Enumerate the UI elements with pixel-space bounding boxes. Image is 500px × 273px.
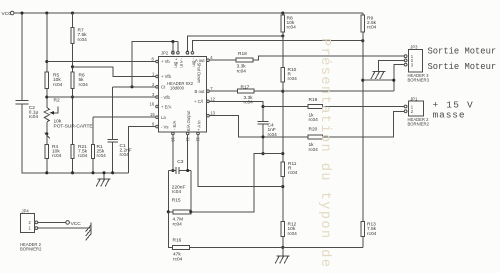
svg-text:rc04: rc04 [78, 153, 88, 159]
wire R9col tap to JP3 drop [363, 79, 394, 81]
value label R7 [78, 28, 88, 43]
IC U1 left pin numbers [150, 57, 156, 127]
wire C3 left node down to R16 [168, 171, 172, 248]
junction R11top-NetY [281, 152, 284, 155]
svg-text:rc04: rc04 [367, 25, 377, 31]
wire pin13 staircase to R20 [209, 116, 307, 137]
capacitor C3 [176, 167, 179, 174]
wire L1 top pin to R8 node [187, 36, 282, 52]
svg-text:rc04: rc04 [173, 221, 183, 227]
junction C4-R19 [261, 105, 264, 108]
value label R2 pot [54, 119, 93, 130]
junction pot-R4 [45, 132, 48, 135]
svg-text:18: 18 [171, 50, 176, 55]
svg-text:BORNIER2: BORNIER2 [408, 122, 430, 127]
junction C4-NetY [261, 152, 264, 155]
svg-text:JP4: JP4 [22, 208, 30, 213]
svg-text:11: 11 [196, 137, 201, 142]
svg-text:rc04: rc04 [268, 132, 278, 138]
svg-text:13: 13 [210, 111, 215, 116]
junction C2-rail [20, 11, 23, 14]
wire R15 left stub [168, 211, 173, 213]
junction R7R6-pin1 [71, 65, 74, 68]
junction R8-rail [281, 11, 284, 14]
wire JP3 pin3 drop [394, 65, 405, 92]
svg-text:- Vfb: - Vfb [161, 95, 171, 100]
value label C1 [120, 143, 132, 158]
value label C2 [29, 105, 39, 120]
svg-text:11: 11 [185, 137, 190, 142]
potentiometer R2 wiper arrow [50, 107, 58, 115]
svg-text:R15: R15 [172, 197, 181, 203]
wire R17 right long run [254, 90, 394, 92]
svg-text:12: 12 [210, 96, 215, 101]
wire C4 bottom to NetY [262, 124, 264, 154]
wire bottom pin3 drop NetX [198, 135, 283, 187]
wire pot bottom to R4 [46, 122, 48, 145]
connector JP1 body [409, 101, 424, 116]
wire Ct to top pins riser [132, 42, 178, 87]
svg-text:rc04: rc04 [309, 117, 319, 123]
resistor R7 [71, 27, 74, 43]
resistor R5 [45, 72, 48, 89]
junction R5-rail [45, 11, 48, 14]
resistor R16 [172, 245, 189, 249]
svg-text:- A In: - A In [179, 58, 184, 68]
potentiometer R2 body [44, 108, 49, 122]
svg-text:BORNIER2: BORNIER2 [20, 247, 42, 252]
wire JP4 pin1 to earth [38, 227, 91, 229]
wire +Vb pin8 [47, 61, 156, 63]
junction R1-rail [91, 171, 94, 174]
svg-text:rc04: rc04 [52, 153, 62, 159]
svg-text:rc04: rc04 [172, 189, 182, 195]
wire bottom pin1 drop [172, 135, 174, 171]
svg-text:BORNIER3: BORNIER3 [408, 77, 430, 82]
wire C1 to bottom rail [112, 142, 114, 173]
IC U1 bottom pin numbers [171, 137, 201, 142]
wire C1 column upper [112, 87, 114, 140]
IC U1 right pin numbers [210, 55, 215, 115]
capacitor C2 [16, 101, 29, 104]
resistor R11 [281, 162, 284, 177]
svg-text:Shut Down: Shut Down [197, 63, 202, 84]
wire R1 to bottom rail [92, 158, 94, 172]
wire rail corner into R9 [362, 13, 364, 15]
svg-text:R17: R17 [241, 85, 250, 91]
ground GND2 earth under R12 [275, 247, 289, 263]
svg-text:17: 17 [185, 50, 190, 55]
wire R16 right bottom run [190, 246, 363, 248]
junction R5-Vfb [45, 95, 48, 98]
connector JP1 name [408, 117, 430, 127]
value label R20 [309, 126, 319, 152]
svg-text:POT-SUR-CARTE: POT-SUR-CARTE [54, 123, 93, 129]
wire VCC top rail [14, 12, 363, 14]
value label R5 [53, 73, 63, 88]
wire R8 rail stub [282, 13, 284, 15]
wire +Vfb pin1 staircase [73, 67, 156, 77]
svg-text:18d000: 18d000 [170, 86, 185, 91]
junction R21-rail [71, 171, 74, 174]
wire R6 to R21 [72, 89, 74, 145]
value label R19 [309, 97, 319, 123]
wire R12 to bottom node [282, 237, 284, 248]
wire +C/l to C4 [209, 101, 263, 121]
junction bpin1-C3left [171, 169, 174, 172]
resistor R1 [91, 144, 94, 158]
svg-text:+ Vfb: + Vfb [161, 74, 172, 79]
IC U1 top pin numbers [171, 50, 191, 55]
svg-text:rc04: rc04 [29, 114, 39, 120]
value label R15 [172, 197, 183, 227]
connector JP4 name [20, 242, 42, 252]
capacitor C4 [258, 122, 269, 124]
IC U1 HEADER 9X2 body [159, 56, 207, 131]
capacitor C1 [107, 139, 118, 141]
value label R1 [97, 144, 107, 159]
node VCC top-left circle [10, 11, 14, 15]
svg-text:+ Vb: + Vb [161, 59, 170, 64]
junction top pin A [171, 40, 174, 43]
svg-text:JP1: JP1 [410, 97, 418, 102]
value label R8 [287, 15, 297, 30]
wire -Vs pin9 [129, 127, 156, 173]
connector JP3 pin numbers [411, 54, 414, 67]
IC U1 rotated pin names [172, 58, 202, 131]
value label R21 [78, 144, 88, 159]
wire -Vfb pin3 [47, 96, 156, 98]
svg-text:JP2: JP2 [161, 50, 169, 55]
wire C2 column upper [21, 13, 23, 101]
connector JP1 pin circles [404, 105, 407, 113]
value label R13 [367, 222, 377, 237]
resistor R13 [361, 221, 364, 236]
connector JP3 name [408, 73, 430, 83]
wire R20 to JP1 pin2 [323, 111, 405, 137]
svg-text:VCC: VCC [2, 11, 13, 17]
connector JP3 pin circles [404, 55, 407, 66]
wire R19 to JP1 pin1 [323, 106, 405, 108]
junction GND1-rail [102, 171, 105, 174]
svg-text:rc04: rc04 [288, 76, 298, 82]
wire R5 bottom to pot [46, 89, 48, 108]
pot arrow tick [45, 133, 50, 139]
IC U1 right pin names [194, 58, 205, 104]
svg-text:La: La [161, 115, 166, 120]
svg-text:rc04: rc04 [173, 256, 183, 262]
junction R12-bottom [281, 246, 284, 249]
wire R18 to JP3 pin1 [253, 56, 404, 60]
connector JP3 body [409, 49, 423, 72]
svg-text:rc04: rc04 [53, 82, 63, 88]
resistor R12 [281, 221, 284, 236]
svg-text:+ C/l: + C/l [194, 99, 203, 104]
wire C2 column lower to bottom rail [22, 104, 129, 173]
resistor R19 [308, 105, 323, 109]
svg-text:rc04: rc04 [79, 82, 89, 88]
junction R10-Bout [281, 90, 284, 93]
wire R11 to R12 [282, 176, 284, 221]
wire R13 to bottom wire [362, 237, 364, 248]
wire R4 to bottom rail [46, 158, 48, 172]
wire L2 top pin to R9 node [192, 41, 362, 52]
wire La pin15 [93, 116, 156, 118]
junction rightnode-R15 [189, 210, 192, 213]
svg-text:15: 15 [150, 112, 155, 117]
svg-text:VCC: VCC [71, 221, 82, 227]
resistor R6 [71, 72, 74, 89]
svg-text:rc04: rc04 [244, 100, 254, 106]
value label R9 [367, 15, 377, 30]
wire bottom pin2 drop [187, 135, 189, 171]
resistor R8 [281, 15, 284, 32]
resistor R17 [238, 89, 255, 93]
svg-text:rc04: rc04 [97, 153, 107, 159]
wire R10 to R11 [282, 82, 284, 162]
resistor R10 [281, 68, 284, 83]
wire top pin B stub [177, 42, 179, 52]
svg-text:- E/A: - E/A [172, 120, 177, 130]
wire top pin A stub [172, 42, 174, 52]
svg-text:+ A In: + A In [197, 120, 202, 131]
svg-text:JP3: JP3 [410, 45, 418, 50]
IC U1 name [167, 81, 194, 91]
connector JP4 pin numbers [29, 220, 32, 231]
value label R11 [288, 161, 298, 176]
resistor R21 [71, 144, 74, 158]
value label R4 [52, 144, 62, 159]
wire R19 left [263, 106, 308, 108]
svg-text:R20: R20 [309, 126, 318, 132]
svg-text:rc04: rc04 [367, 231, 377, 237]
resistor R20 [308, 135, 323, 139]
svg-text:rc04: rc04 [78, 37, 88, 43]
value label R6 [79, 73, 89, 88]
wire R1 column [92, 117, 94, 144]
wire C3 left lead [168, 170, 176, 172]
svg-text:- Vs: - Vs [161, 124, 168, 129]
value label R17 [241, 85, 254, 106]
svg-text:rc04: rc04 [288, 170, 298, 176]
svg-text:- Bin: - Bin [192, 58, 197, 67]
svg-text:C3: C3 [177, 159, 183, 165]
value label R12 [288, 222, 298, 237]
svg-text:rc04: rc04 [120, 152, 130, 158]
wire R9 to R13 long column [362, 32, 364, 222]
svg-text:Présentation du typon de la: Présentation du typon de la [317, 38, 332, 273]
junction Ct [130, 85, 133, 88]
junction L2-R9col [361, 39, 364, 42]
ground earth JP4 [86, 222, 91, 240]
resistor R15 [173, 210, 191, 214]
wire R7 to R6 [72, 43, 74, 72]
svg-text:16: 16 [150, 102, 155, 107]
junction leftnode-R15 [167, 210, 170, 213]
IC U1 left pin circles [156, 60, 159, 128]
junction tap-JP3drop [392, 79, 395, 82]
svg-text:+ E/A: + E/A [161, 104, 172, 109]
svg-text:R2: R2 [54, 98, 60, 104]
IC U1 bottom pin circles [172, 132, 200, 135]
junction R4-rail [45, 171, 48, 174]
value label C3 farad [172, 184, 186, 195]
svg-text:rc04: rc04 [288, 231, 298, 237]
value label C4 [268, 123, 278, 138]
junction pin13wire-C4col [261, 135, 264, 138]
resistor R4 [45, 144, 48, 158]
junction R5-pin8 [45, 60, 48, 63]
value label R10 [288, 67, 298, 82]
junction R7-rail [71, 11, 74, 14]
wire R21 to bottom rail [72, 158, 74, 172]
value label R18 [237, 51, 248, 74]
value label R16 [173, 238, 183, 263]
resistor R9 [361, 15, 364, 32]
ground GND1 left earth [96, 173, 110, 187]
wire B out through R17 to JP3 pin3 [209, 90, 237, 92]
wire JP3 pin2 to chassis [379, 60, 405, 71]
svg-text:R16: R16 [173, 238, 182, 244]
wire R7 column top [72, 13, 74, 27]
svg-text:R18: R18 [238, 51, 247, 57]
ground chassis JP3 [371, 72, 385, 79]
junction C1-rail [111, 171, 114, 174]
junction bpin2-C3right [186, 169, 189, 172]
junction R11bot-NetX [281, 185, 284, 188]
node VCC [0, 0, 1, 1]
wire Ct pin2 [113, 86, 156, 88]
connector JP4 pin circles [35, 221, 38, 230]
wire C3 right node down [190, 171, 192, 212]
junction R6-Vfb [71, 95, 74, 98]
node VCC JP4 circle [66, 221, 70, 225]
wire A out to R18 [209, 59, 236, 61]
svg-text:10: 10 [171, 137, 176, 142]
wire R15 right to NetY riser [191, 154, 283, 212]
junction L1-R8col [281, 34, 284, 37]
svg-text:masse: masse [433, 110, 466, 121]
wire C3 right lead [179, 170, 191, 172]
resistor R18 [236, 58, 253, 62]
svg-text:Sortie Moteur: Sortie Moteur [428, 62, 497, 72]
svg-text:R19: R19 [309, 97, 318, 103]
wire JP4 pin2 to VCC [38, 221, 66, 223]
connector JP4 body [21, 213, 35, 232]
wire R5 column top [46, 13, 48, 72]
svg-text:Sortie Moteur: Sortie Moteur [428, 46, 497, 56]
IC U1 top pin circles [172, 52, 194, 55]
svg-text:rc04: rc04 [287, 25, 297, 31]
svg-text:B out: B out [195, 89, 206, 94]
IC U1 right pin circles [207, 59, 210, 117]
svg-text:rc04: rc04 [237, 68, 247, 74]
wire R8 to R10 [282, 32, 284, 67]
junction R9col-JP3wire [361, 79, 364, 82]
svg-text:E/A Output: E/A Output [186, 110, 191, 131]
svg-text:+ Bin: + Bin [174, 58, 179, 68]
svg-text:rc04: rc04 [309, 147, 319, 153]
connector JP1 pin numbers [411, 104, 414, 114]
IC U1 left pin names [161, 59, 172, 129]
